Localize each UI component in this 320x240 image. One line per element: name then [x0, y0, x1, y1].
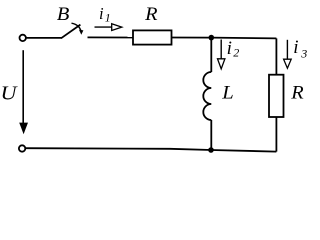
svg-text:3: 3	[300, 46, 307, 60]
svg-text:B: B	[57, 4, 70, 25]
svg-text:i: i	[99, 4, 104, 23]
svg-text:i: i	[227, 38, 232, 59]
svg-text:R: R	[290, 82, 304, 103]
svg-text:1: 1	[105, 10, 111, 24]
svg-text:U: U	[1, 83, 19, 105]
svg-text:L: L	[221, 82, 234, 103]
svg-text:R: R	[144, 4, 158, 25]
svg-text:i: i	[293, 37, 298, 58]
svg-text:2: 2	[233, 45, 239, 59]
